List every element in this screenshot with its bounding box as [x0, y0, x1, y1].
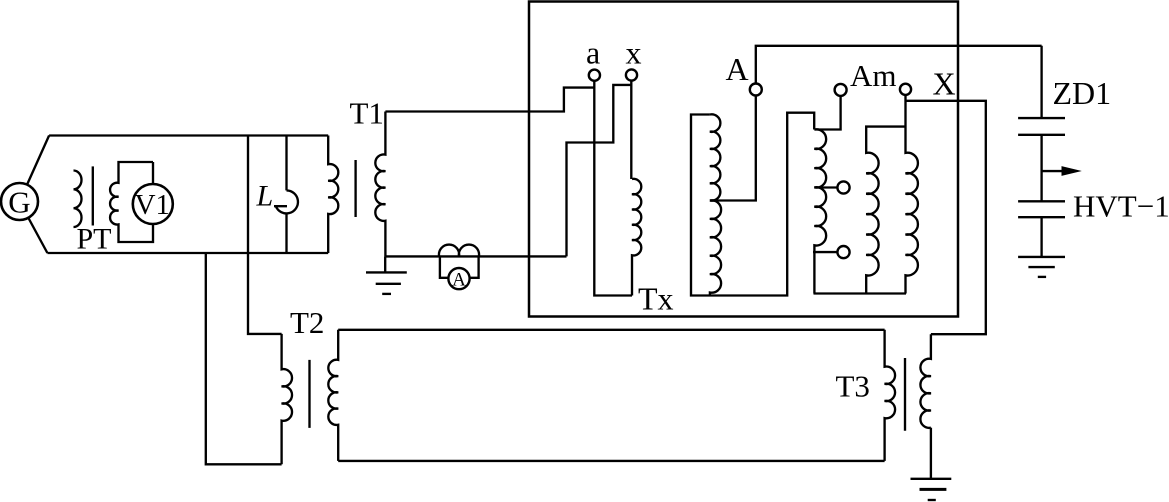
- svg-text:A: A: [726, 51, 749, 87]
- T3 primary coil (right edge of load rectangle): [885, 330, 895, 461]
- ground at T1: [366, 256, 407, 294]
- Tx winding: [632, 179, 641, 296]
- svg-text:ZD1: ZD1: [1053, 75, 1112, 111]
- current transformer bumps: [439, 245, 479, 257]
- middle winding lower half: [710, 200, 721, 295]
- T2 secondary coil (left edge of load rectangle): [328, 330, 338, 461]
- inductor L gap-circle symbol: [274, 190, 298, 213]
- transformer T1 primary coil (right edge of bus loop): [328, 136, 338, 254]
- wire terminal x staircase to CT line: [567, 85, 632, 257]
- wire generator leads (diagonals): [20, 136, 50, 254]
- T1 core: [354, 160, 356, 217]
- svg-text:A: A: [452, 269, 466, 290]
- regulator box outline: [529, 2, 958, 317]
- winding W2 with bracket to X line: [866, 127, 905, 294]
- T2 primary coil: [282, 334, 292, 464]
- svg-text:X: X: [933, 66, 956, 102]
- inductor L branch lower wire: [285, 213, 287, 253]
- ground at T3: [911, 428, 952, 500]
- load rectangle top edge: [338, 329, 884, 331]
- svg-text:x: x: [626, 34, 642, 70]
- capacitor HVT-1: [1018, 201, 1065, 217]
- terminal a: [589, 70, 600, 81]
- svg-text:Am: Am: [850, 58, 897, 93]
- wire between capacitors: [1040, 135, 1042, 202]
- terminal X: [900, 84, 911, 95]
- wire bus bottom to T2 secondary-side loop: [206, 253, 282, 464]
- ground at HVT-1: [1018, 217, 1065, 277]
- wire T1 top to terminal a: [385, 88, 594, 112]
- T3 core: [904, 358, 906, 431]
- wire bottom rail of right section: [814, 292, 907, 294]
- PT core: [92, 166, 94, 225]
- wire trapezoid top edge: [49, 134, 328, 136]
- ammeter A: [448, 268, 469, 290]
- wire terminal a drop to Tx coil bottom: [594, 81, 632, 296]
- T3 secondary coil: [920, 334, 930, 428]
- winding W1 (Am tapped winding): [814, 129, 826, 293]
- voltmeter V1: [133, 184, 173, 224]
- svg-text:L: L: [256, 180, 274, 213]
- capacitor ZD1: [1018, 118, 1065, 135]
- terminal x: [626, 69, 637, 80]
- wire bus to T2 primary top: [248, 253, 282, 334]
- tap terminal 1: [837, 181, 849, 193]
- svg-text:Tx: Tx: [638, 280, 674, 316]
- wire trapezoid bottom edge: [47, 252, 328, 254]
- wire internal vertical (bus): [247, 136, 249, 254]
- svg-text:T2: T2: [290, 305, 324, 340]
- load rectangle bottom edge: [338, 460, 884, 462]
- svg-text:HVT−1: HVT−1: [1073, 188, 1169, 223]
- T2 core: [308, 360, 310, 428]
- T1 secondary coil: [375, 112, 385, 257]
- inductor L branch upper wire: [285, 136, 287, 191]
- wire to ZD1: [1040, 46, 1042, 118]
- current transformer secondary rectangle: [440, 256, 479, 277]
- generator G: [1, 183, 38, 220]
- terminal Am: [835, 84, 847, 96]
- winding W3 under terminal X: [906, 95, 918, 294]
- terminal A: [750, 84, 762, 96]
- wire terminal A drop to winding tap: [710, 96, 756, 201]
- svg-text:T3: T3: [836, 369, 870, 404]
- PT primary coil: [74, 171, 82, 227]
- arrow tap: [1042, 166, 1082, 176]
- wire tap 1: [814, 186, 837, 188]
- PT secondary coil with voltmeter branch rectangle: [110, 162, 153, 242]
- wire terminal A up and over to ZD1: [756, 46, 1042, 84]
- wire middle-winding left loop: [691, 113, 814, 296]
- wire Am terminal bracket: [814, 96, 840, 130]
- svg-text:G: G: [8, 185, 30, 220]
- tap terminal 2: [837, 246, 849, 258]
- svg-text:PT: PT: [77, 223, 112, 256]
- wire terminal X out to T3 secondary: [906, 101, 986, 334]
- wire terminal x to Tx coil top: [630, 81, 632, 179]
- svg-text:T1: T1: [350, 96, 384, 131]
- wire T1 bottom through CT: [385, 255, 566, 257]
- wire tap 2: [813, 251, 837, 253]
- middle winding upper half: [710, 114, 720, 200]
- svg-text:a: a: [586, 35, 600, 71]
- svg-text:V1: V1: [135, 189, 170, 221]
